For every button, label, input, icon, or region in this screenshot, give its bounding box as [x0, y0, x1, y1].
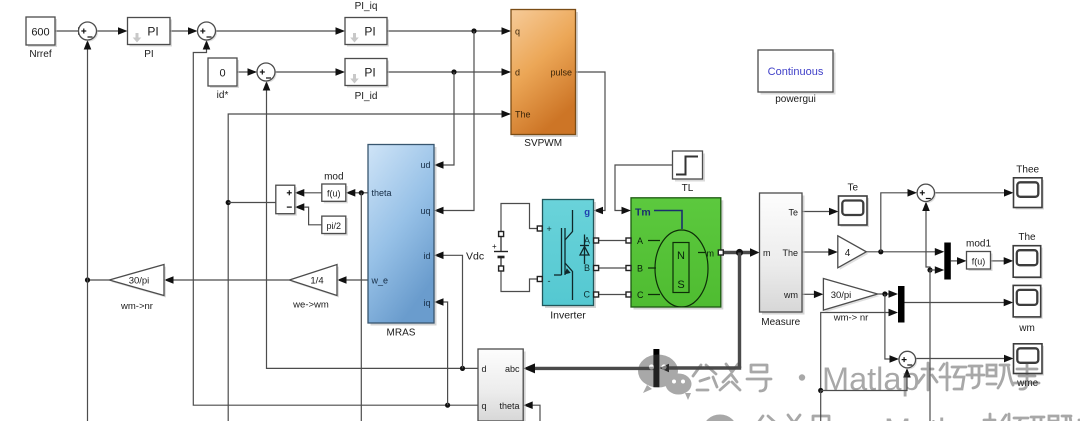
svg-text:mod: mod	[324, 172, 343, 183]
wire pi/2 to rect-sum minus	[295, 203, 322, 225]
wire gain 30/pi to mux2	[878, 290, 898, 298]
junction theta-port	[359, 190, 364, 195]
wire nr-est to mux2 lower	[821, 309, 898, 391]
svg-text:mod1: mod1	[966, 239, 991, 250]
wire mux1 to f(u) mod1	[951, 257, 967, 265]
junction id-voltage	[451, 69, 456, 74]
scope Te	[839, 183, 870, 228]
svg-text:we->wm: we->wm	[292, 300, 329, 311]
wire battery plus loop to inverter +	[501, 204, 538, 232]
block Measure	[760, 193, 805, 328]
gain 30/pi wm to nr (right)	[823, 279, 879, 324]
svg-text:Te: Te	[788, 208, 798, 218]
svg-text:MRAS: MRAS	[387, 328, 416, 339]
svg-text:The: The	[515, 110, 531, 120]
gain 4	[838, 236, 869, 270]
block f(u) mod1	[966, 239, 993, 272]
wire iq measured up to MRAS iq	[434, 298, 448, 405]
scope Thee	[1014, 165, 1045, 210]
wire Thee-ref to mux1 lower	[930, 266, 944, 274]
wire SVPWM pulse to inverter g	[576, 72, 606, 214]
svg-text:+: +	[547, 224, 552, 234]
svg-text:Thee: Thee	[1016, 165, 1039, 176]
wechat logo row1	[638, 355, 692, 401]
junction gain4-out	[878, 249, 883, 254]
svg-text:600: 600	[31, 27, 49, 39]
svg-text:iq: iq	[423, 298, 430, 308]
wire gain 1/4 to gain 30/pi	[164, 276, 289, 284]
svg-text:Inverter: Inverter	[550, 310, 586, 322]
svg-text:d: d	[515, 68, 520, 78]
block f(u) mod	[322, 172, 348, 204]
svg-text:pi/2: pi/2	[327, 221, 342, 231]
wire theta vertical off-canvas	[360, 193, 362, 421]
wire mod-sum output	[228, 202, 276, 204]
watermark row2 (clipped at bottom)	[755, 412, 1080, 421]
scope wm	[1013, 285, 1042, 334]
wire sum5 to scope wme	[916, 355, 1014, 363]
junction nr-measured	[882, 291, 887, 296]
wire ud feed (from PI_id line down to MRAS ud)	[434, 72, 454, 169]
svg-text:id: id	[423, 251, 430, 261]
wire MRAS w_e to gain 1/4	[337, 276, 368, 284]
wire theta into dq block (hook from below)	[523, 401, 540, 421]
svg-text:w_e: w_e	[371, 276, 389, 286]
block MRAS	[368, 145, 437, 339]
svg-text:30/pi: 30/pi	[129, 276, 150, 287]
wire nr feedback down off-canvas	[87, 280, 89, 421]
junction iq-voltage	[471, 28, 476, 33]
junction nr-est	[818, 388, 823, 393]
wire sum3 to PI_id	[275, 68, 345, 76]
wire Measure wm to gain 30/pi	[802, 291, 823, 299]
wire d-current feedback to sum3	[263, 81, 478, 368]
svg-text:Vdc: Vdc	[466, 251, 484, 263]
svg-text:30/pi: 30/pi	[831, 290, 852, 301]
svg-text:The: The	[782, 248, 798, 258]
junction nr-feedback	[85, 277, 90, 282]
svg-text:pulse: pulse	[550, 68, 572, 78]
svg-text:4: 4	[845, 248, 851, 259]
svg-text:PI: PI	[144, 49, 153, 60]
svg-text:q: q	[515, 27, 520, 37]
bus selector bar	[653, 349, 659, 387]
svg-text:q: q	[482, 401, 487, 411]
sum2 iq error	[198, 22, 218, 42]
svg-text:Matlap: Matlap	[822, 361, 920, 397]
svg-text:PI_iq: PI_iq	[355, 1, 378, 12]
bus m left to selector	[668, 366, 741, 369]
wire gain4 to mux1	[866, 248, 944, 256]
svg-text:TL: TL	[682, 183, 694, 194]
junction Thee-ref	[927, 267, 932, 272]
svg-text:uq: uq	[420, 206, 430, 216]
mux2	[898, 286, 905, 323]
svg-text:S: S	[677, 279, 684, 291]
wire id* to sum3	[237, 68, 257, 76]
block Nrref (600)	[26, 17, 57, 60]
svg-text:+: +	[492, 242, 497, 251]
svg-text:Te: Te	[848, 183, 859, 194]
wire Thee-ref up into sum4 from below	[922, 202, 930, 271]
svg-text:PI: PI	[147, 25, 158, 39]
svg-text:theta: theta	[499, 401, 519, 411]
svg-text:PI: PI	[364, 25, 375, 39]
svg-text:m: m	[763, 248, 771, 258]
wire nr feedback up to sum1	[84, 40, 92, 280]
junction theta-mod	[226, 200, 231, 205]
bus selector to abc input	[535, 367, 653, 370]
wire PI to sum2	[170, 27, 198, 35]
svg-text:theta: theta	[372, 188, 392, 198]
svg-text:powergui: powergui	[775, 94, 816, 105]
wire inverter C to motor C	[599, 294, 629, 296]
svg-text:wm: wm	[1018, 323, 1035, 334]
svg-text:Measure: Measure	[761, 317, 800, 328]
wire 30/pi to left feedback node	[88, 279, 110, 281]
wire inverter A to motor A	[599, 240, 629, 242]
block abc-to-dq	[478, 349, 526, 421]
sum4 Thee error	[917, 184, 936, 203]
svg-text:Continuous: Continuous	[768, 66, 824, 78]
wire PI_id to SVPWM d	[387, 68, 511, 76]
wire gain4 up to sum4	[881, 189, 917, 252]
wire theta to SVPWM The	[228, 110, 511, 202]
svg-text:f(u): f(u)	[327, 189, 341, 199]
wire uq feed (from PI_iq line down to MRAS uq)	[434, 31, 474, 214]
wire nr-est to sum5 bottom	[821, 368, 911, 391]
sum1 speed error	[79, 22, 99, 42]
wire Thee-ref down off-canvas	[929, 270, 931, 421]
wire q-current feedback to sum2	[193, 40, 478, 405]
svg-text:SVPWM: SVPWM	[524, 138, 562, 149]
bus m output of motor	[723, 251, 751, 254]
svg-text:abc: abc	[505, 364, 520, 374]
wire f(u) mod1 to scope The	[991, 257, 1014, 265]
svg-text:B: B	[584, 263, 590, 273]
wire Measure Te to scope Te	[802, 208, 839, 216]
wire inverter B to motor B	[599, 267, 629, 269]
scope wme	[1014, 344, 1045, 389]
wire id measured up to MRAS id	[434, 252, 463, 369]
scope The	[1013, 232, 1042, 279]
svg-text:wm: wm	[783, 290, 798, 300]
block DC source Vdc	[466, 232, 508, 272]
wire sum2 to PI_iq	[216, 27, 346, 35]
wire nr-est down off-canvas	[820, 391, 822, 421]
block PMSM motor	[626, 198, 723, 310]
svg-text:PI: PI	[364, 66, 375, 80]
wire MRAS theta out to f(u) mod	[346, 189, 368, 197]
block pi/2	[322, 216, 348, 235]
WATERMARK	[638, 355, 1080, 421]
svg-text:m: m	[707, 249, 715, 259]
svg-text:wm->nr: wm->nr	[120, 301, 153, 312]
block PI speed	[128, 18, 173, 61]
bus m down	[738, 253, 741, 369]
svg-text:id*: id*	[217, 90, 229, 101]
junction iq-measured	[445, 403, 450, 408]
wire Measure The to gain 4	[802, 248, 838, 256]
wire sum1 to PI	[97, 27, 128, 35]
block PI_iq	[345, 1, 389, 47]
wire mux2 to scope wm	[905, 299, 1014, 307]
wire TL to PMSM Tm	[615, 165, 673, 214]
block TL (step)	[673, 151, 706, 194]
junction id-measured	[460, 366, 465, 371]
junction bus m	[736, 249, 743, 256]
svg-text:C: C	[584, 290, 591, 300]
wechat logo row2 (clipped)	[703, 415, 737, 421]
mux1	[944, 243, 951, 280]
svg-text:-: -	[548, 276, 551, 286]
wire battery minus loop to inverter -	[501, 271, 538, 292]
svg-text:N: N	[677, 250, 685, 262]
svg-text:B: B	[637, 264, 643, 274]
rect-sum theta minus pi/2	[276, 185, 297, 216]
svg-text:PI_id: PI_id	[355, 91, 378, 102]
block powergui (Continuous)	[758, 50, 836, 105]
watermark glyphs ke-yan-zhu-shou	[918, 363, 1039, 390]
watermark glyphs gong-zhong-hao	[693, 364, 805, 391]
block id* (0)	[208, 58, 239, 101]
svg-text:1/4: 1/4	[310, 276, 323, 287]
gain 30/pi wm->nr	[109, 265, 166, 313]
svg-text:Nrref: Nrref	[29, 49, 51, 60]
svg-text:ud: ud	[420, 160, 430, 170]
svg-text:The: The	[1018, 232, 1036, 243]
svg-text:f(u): f(u)	[972, 256, 986, 266]
wire sum4 to scope Thee	[935, 189, 1014, 197]
block PI_id	[345, 59, 389, 103]
block Inverter	[537, 200, 598, 322]
sum3 id error	[257, 63, 277, 83]
svg-text:g: g	[584, 207, 590, 218]
gain 1/4 we->wm	[289, 265, 339, 311]
wire f(u) mod to rect-sum plus	[295, 189, 322, 197]
block SVPWM	[511, 10, 578, 150]
wire theta down off-canvas	[227, 203, 229, 421]
svg-text:0: 0	[219, 68, 225, 80]
svg-text:wm-> nr: wm-> nr	[833, 313, 869, 324]
svg-text:d: d	[482, 364, 487, 374]
wire Nrref to sum1	[55, 27, 88, 35]
svg-text:C: C	[637, 290, 644, 300]
sum5 wme error	[899, 351, 917, 369]
wire PI_iq to SVPWM q	[387, 27, 511, 35]
svg-text:A: A	[637, 236, 643, 246]
svg-text:Tm: Tm	[635, 207, 651, 219]
wire nr-measured down to sum5	[885, 294, 899, 363]
